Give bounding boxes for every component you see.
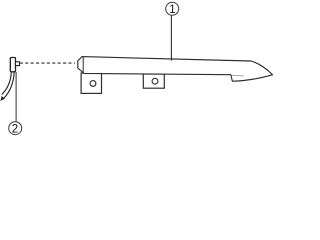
left end cap face line	[82, 57, 84, 73]
svg-text:2: 2	[12, 124, 18, 136]
faint fold line on right tip	[231, 74, 244, 77]
svg-text:1: 1	[169, 4, 175, 16]
label circle 2	[9, 122, 22, 136]
dashed alignment line	[20, 62, 75, 64]
mounting tab left (with screw hole)	[81, 73, 101, 93]
lamp body (elongated blade part 1)	[78, 57, 273, 82]
mounting tab middle (with screw hole)	[143, 74, 164, 88]
label circle 1	[166, 2, 179, 16]
leader line 1	[170, 16, 172, 61]
leader line 2	[15, 72, 17, 121]
wire end arrow tip	[0, 96, 4, 101]
wire pigtail (two curved strokes)	[3, 72, 14, 99]
connector plug (part 2)	[10, 58, 19, 72]
